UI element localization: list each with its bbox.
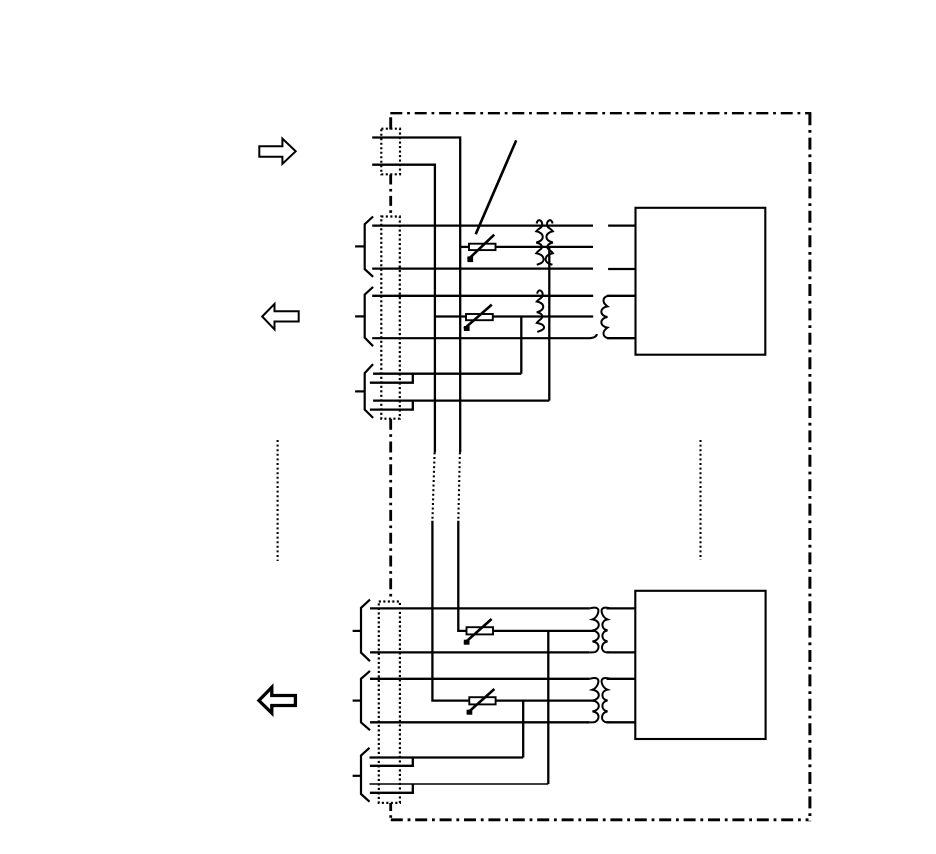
shield lug C-2 fold (370, 784, 413, 793)
wire to varistor RV4 (432, 521, 469, 701)
box unit 1 (636, 208, 766, 355)
enclosure border left segment 2 (389, 175, 392, 217)
branch wire 2-2 to lug1 (520, 317, 522, 374)
shield lug 3-2 (370, 401, 549, 410)
wire 1-2 varistor feed (460, 246, 469, 248)
varistor RV3 arrow (464, 619, 491, 643)
varistor RV1 square (467, 256, 473, 262)
arrow right (input) (259, 139, 295, 164)
enclosure border bottom (dash-dot) (391, 818, 809, 821)
wire 1-3 stub to box (608, 268, 636, 270)
box unit 2 (635, 591, 765, 739)
wire T3 secondary top to box (607, 678, 637, 680)
transformer T2 secondary winding (602, 608, 610, 653)
wire 2-2 out (493, 315, 593, 317)
wire T2 secondary top to box (607, 607, 637, 609)
connector X1 (dotted shell) (381, 129, 400, 175)
continuation dotted wire left (432, 452, 434, 520)
wire B-1 (370, 678, 590, 680)
choke L1 right winding (546, 220, 553, 265)
wire T3 secondary bottom to box (607, 721, 637, 723)
transformer T2 primary winding (590, 608, 599, 653)
brace group 1 (365, 217, 373, 277)
brace group C (361, 748, 370, 802)
brace group B (361, 671, 370, 730)
wire A-3 (370, 651, 590, 653)
wire A-1 (370, 607, 590, 609)
wire 2-2 varistor feed (435, 315, 466, 317)
wire to varistor RV3 (458, 521, 466, 631)
varistor RV1 body (469, 244, 496, 250)
wire L1 from X1 (372, 138, 460, 453)
continuation dotted line right (699, 440, 701, 560)
varistor RV1 arrow (468, 235, 494, 260)
wire 1-1 (372, 224, 593, 226)
enclosure border left segment 4 (389, 803, 392, 820)
leader line to RV1 (476, 140, 517, 234)
shield lug 3-1 (370, 374, 521, 383)
wire T2 secondary bottom to box (607, 651, 637, 653)
connector X2 (dotted shell) (381, 217, 400, 419)
wire L2 from X1 (372, 165, 435, 453)
shield lug C-1 (370, 758, 524, 766)
varistor RV3 body (467, 627, 494, 634)
transformer T1 primary winding (537, 290, 544, 332)
varistor RV3 square (464, 640, 470, 645)
wire A-2 out (center tap) (493, 630, 594, 632)
brace group 2 (365, 287, 373, 346)
brace group A (361, 600, 370, 662)
wire 1-2 out (496, 246, 594, 248)
connector X3 (dotted shell) (379, 602, 400, 803)
enclosure border top (dash-dot) (390, 112, 811, 114)
varistor RV2 body (466, 314, 493, 320)
varistor RV4 square (467, 710, 473, 715)
choke L1 left winding (536, 220, 543, 265)
brace group 3 (365, 364, 373, 418)
wire T1 secondary bottom to box (607, 337, 636, 339)
branch varistor RV3 wire to lug C2 (547, 631, 549, 784)
wire B-2 out (center tap) (496, 699, 595, 701)
wire T1 secondary top to box (607, 295, 636, 297)
arrow left (bottom) (259, 687, 296, 713)
transformer T3 secondary winding (602, 678, 610, 722)
wire 1-3 (372, 267, 593, 269)
enclosure border right (dash-dot) (808, 113, 811, 821)
wire 2-1 (372, 295, 593, 297)
arrow left (middle) (262, 304, 299, 330)
transformer T3 primary winding (590, 678, 599, 722)
varistor RV2 arrow (464, 305, 492, 329)
wire 2-3 with hook (372, 334, 597, 338)
varistor RV4 arrow (467, 689, 494, 713)
wire 1-1 stub to box (608, 224, 636, 226)
enclosure border left segment 1 (389, 117, 392, 129)
continuation dotted wire right (458, 452, 460, 520)
transformer T1 secondary winding (601, 296, 609, 338)
varistor RV4 body (469, 697, 495, 704)
branch varistor RV4 wire to lug C1 (522, 701, 524, 758)
shield lug C-2 main (370, 783, 549, 785)
continuation dotted line left (277, 440, 279, 561)
wire B-3 (370, 721, 590, 723)
enclosure border left segment 3 (389, 419, 392, 602)
varistor RV2 square (464, 326, 470, 331)
wire from choke L1 to PE lug (548, 247, 550, 401)
